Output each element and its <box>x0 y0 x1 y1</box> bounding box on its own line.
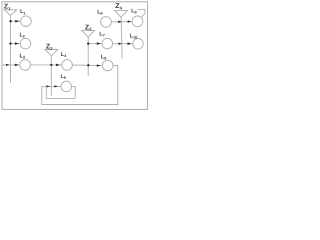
wire outer feedback loop from L8 <box>42 66 118 105</box>
lamp L4 <box>62 60 73 71</box>
node junction dot on Z1 bus row1 <box>9 20 11 22</box>
svg-text:L8: L8 <box>101 54 106 60</box>
svg-text:L2: L2 <box>20 33 25 39</box>
wire row4: loop corner to L5 <box>42 85 61 87</box>
svg-text:Z1: Z1 <box>4 4 11 11</box>
arrowhead into Z4 bus row2 <box>118 43 122 45</box>
svg-text:L6: L6 <box>97 9 102 15</box>
lamp L9 <box>132 16 143 27</box>
svg-text:Z4: Z4 <box>115 3 122 10</box>
wire Z2 bus <box>50 56 52 96</box>
wire L9 top loop <box>138 9 145 17</box>
svg-text:L10: L10 <box>130 34 138 40</box>
arrowhead into L5 <box>54 85 58 87</box>
wire row1 left: Z1 bus to L1 <box>11 20 21 22</box>
wire Z3 bus tap to L7 <box>88 43 102 45</box>
arrowhead into L3 <box>15 64 19 67</box>
wire Z3 bus <box>87 37 89 76</box>
wire Z1 bus <box>10 15 12 83</box>
arrowhead into L8 <box>97 64 101 66</box>
antenna Z4 <box>115 11 128 18</box>
svg-text:Z3: Z3 <box>85 24 92 31</box>
lamp L6 <box>101 17 112 28</box>
wire L6 to Z4 bus <box>111 21 122 23</box>
wire row3: L3 to L4 <box>30 64 61 66</box>
wire row3 left: frame to L3 <box>2 64 20 66</box>
svg-text:L4: L4 <box>61 52 67 58</box>
arrowhead into L2 <box>15 42 19 45</box>
arrowhead into L7 <box>97 42 101 45</box>
node junction dot Z3 bus row3 <box>87 64 89 66</box>
node junction dot Z2 bus row3 <box>50 64 52 66</box>
node junction dot Z3 bus row2 <box>87 42 89 44</box>
svg-text:L3: L3 <box>20 54 25 60</box>
boundary box <box>2 2 148 110</box>
node junction dot on Z1 bus row2 <box>9 42 11 44</box>
svg-text:Z2: Z2 <box>46 44 53 51</box>
lamp L8 <box>102 60 113 71</box>
svg-text:L7: L7 <box>99 32 104 38</box>
arrowhead into L10 <box>128 42 132 45</box>
lamp L1 <box>21 16 32 27</box>
arrowhead into L4 <box>56 64 60 67</box>
arrowhead into Z2 bus row4 <box>46 85 50 87</box>
arrowhead into L1 <box>15 20 19 23</box>
arrowhead into L9 <box>128 20 132 22</box>
svg-text:L5: L5 <box>61 74 66 80</box>
lamp L10 <box>133 39 144 50</box>
wire Z4 bus to L9 <box>122 21 132 23</box>
wire L5 self-loop <box>46 86 75 98</box>
antenna Z2 <box>45 50 58 56</box>
lamp L5 <box>61 81 72 92</box>
arrowhead into Z1 bus row3 <box>6 64 10 66</box>
lamp L2 <box>20 38 31 49</box>
svg-text:L9: L9 <box>131 8 136 14</box>
svg-text:L1: L1 <box>20 9 25 15</box>
wire row3: L4 to L8 <box>72 64 102 67</box>
wire L7 to L10 <box>113 43 133 45</box>
antenna Z3 <box>82 30 95 37</box>
antenna Z1 <box>4 10 17 15</box>
arrowhead into Z4 bus row1 <box>118 21 122 23</box>
lamp L3 <box>20 60 31 71</box>
wire Z4 bus <box>121 17 122 59</box>
wire row2 left: Z1 bus to L2 <box>11 43 21 45</box>
lamp L7 <box>102 38 113 49</box>
